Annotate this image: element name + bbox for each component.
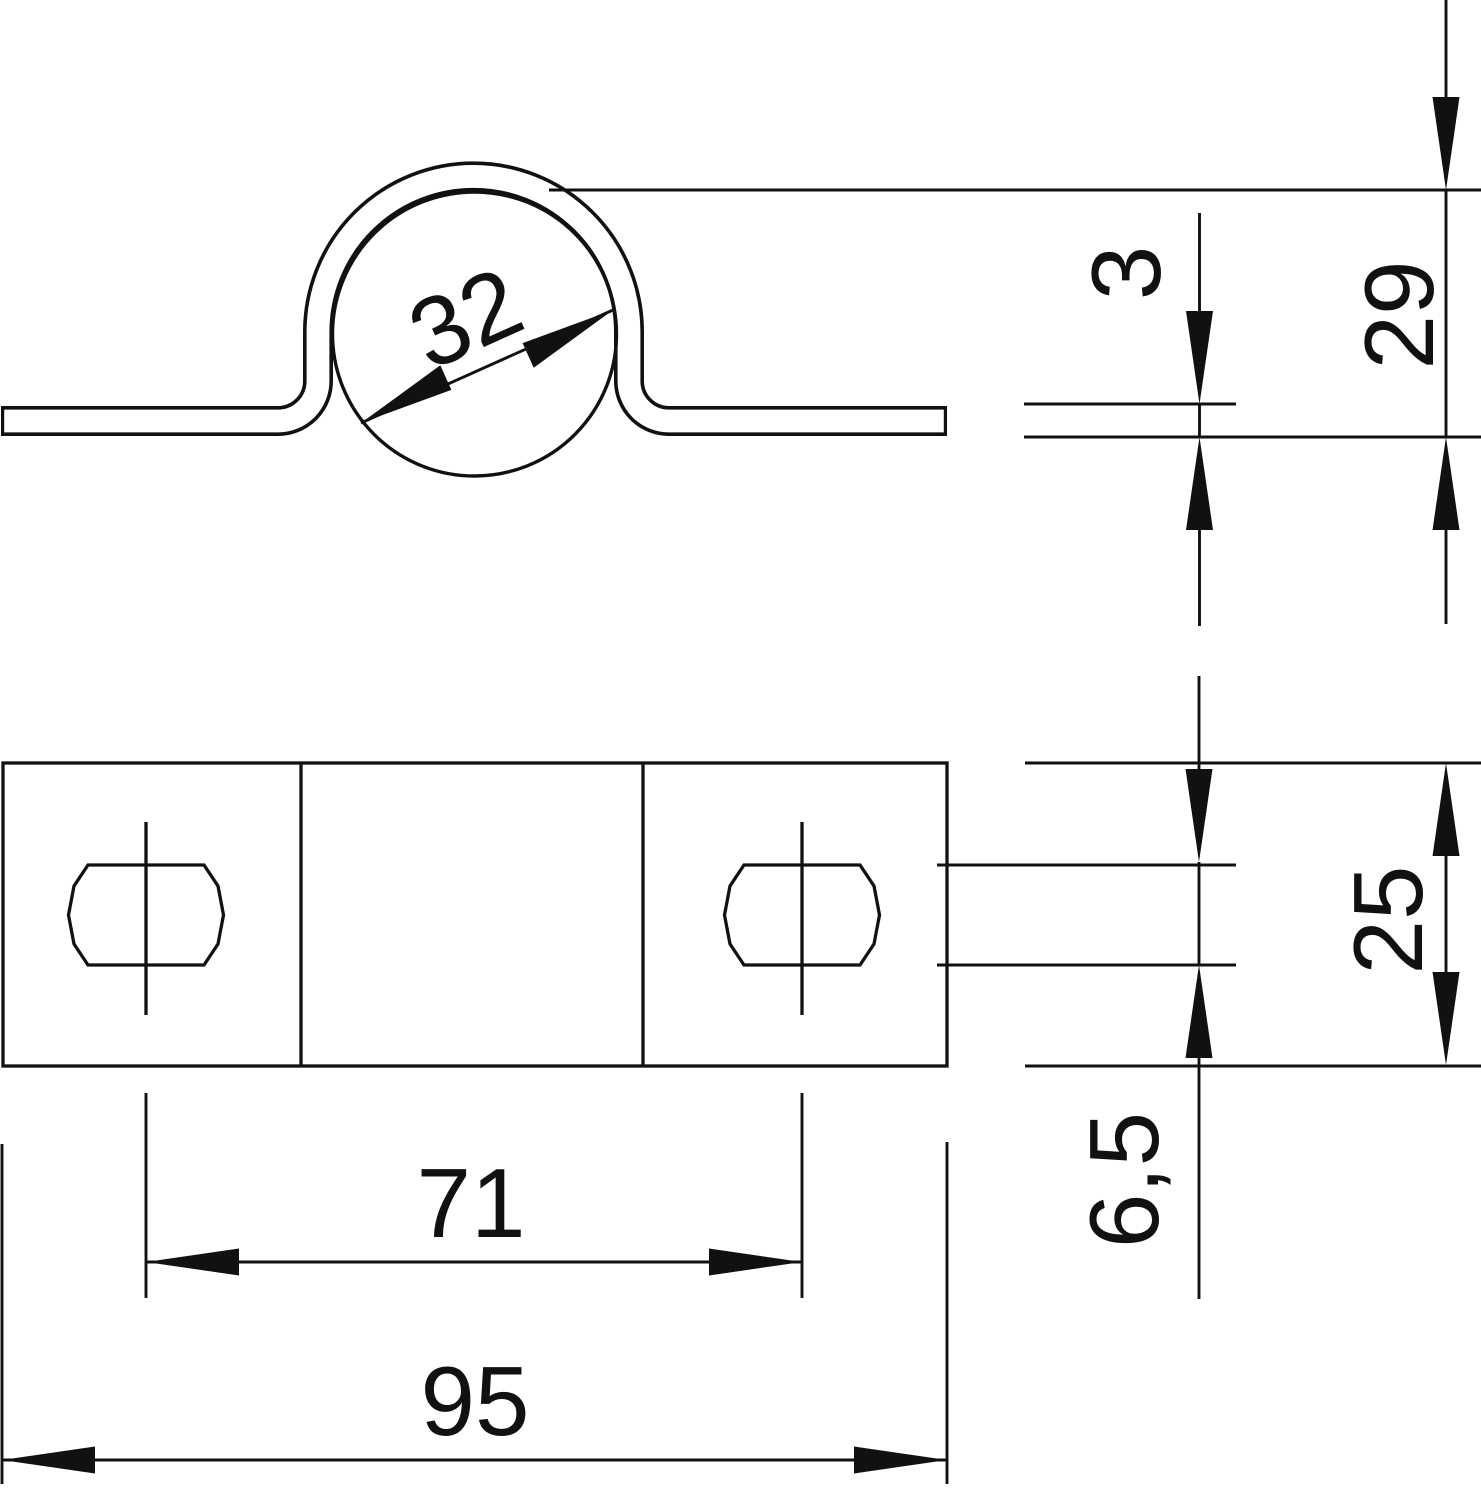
svg-text:3: 3	[1071, 246, 1181, 301]
diameter dimension 32	[361, 246, 613, 423]
svg-text:71: 71	[416, 1148, 525, 1258]
dimension 95	[2, 1142, 947, 1484]
svg-text:29: 29	[1344, 260, 1454, 369]
rectangle top extension line	[1025, 762, 1481, 765]
svg-text:25: 25	[1333, 865, 1443, 974]
left slot hole	[69, 865, 224, 965]
left hole centre line	[144, 822, 147, 1015]
right bend division line	[641, 763, 644, 1066]
extension line from saddle top	[549, 189, 1481, 192]
left bend division line	[299, 763, 302, 1066]
pipe circle	[333, 192, 617, 476]
rectangle bottom extension line	[1025, 1065, 1481, 1068]
dimension 25	[1333, 763, 1460, 1065]
extension line strip bottom	[1024, 436, 1481, 439]
dimension 3	[1071, 213, 1213, 626]
bottom view rectangle	[3, 763, 947, 1066]
right slot hole	[725, 865, 880, 965]
dimension 29	[1344, 0, 1460, 624]
dimension 71	[146, 1093, 802, 1298]
slot bottom extension line	[937, 964, 1236, 967]
extension line strip top	[1024, 403, 1236, 406]
right hole centre line	[800, 822, 803, 1015]
svg-text:6,5: 6,5	[1069, 1112, 1179, 1248]
svg-text:95: 95	[420, 1346, 529, 1456]
clamp profile (side view strip)	[1, 176, 947, 421]
slot top extension line	[937, 864, 1236, 867]
dimension 6,5	[1069, 676, 1213, 1299]
